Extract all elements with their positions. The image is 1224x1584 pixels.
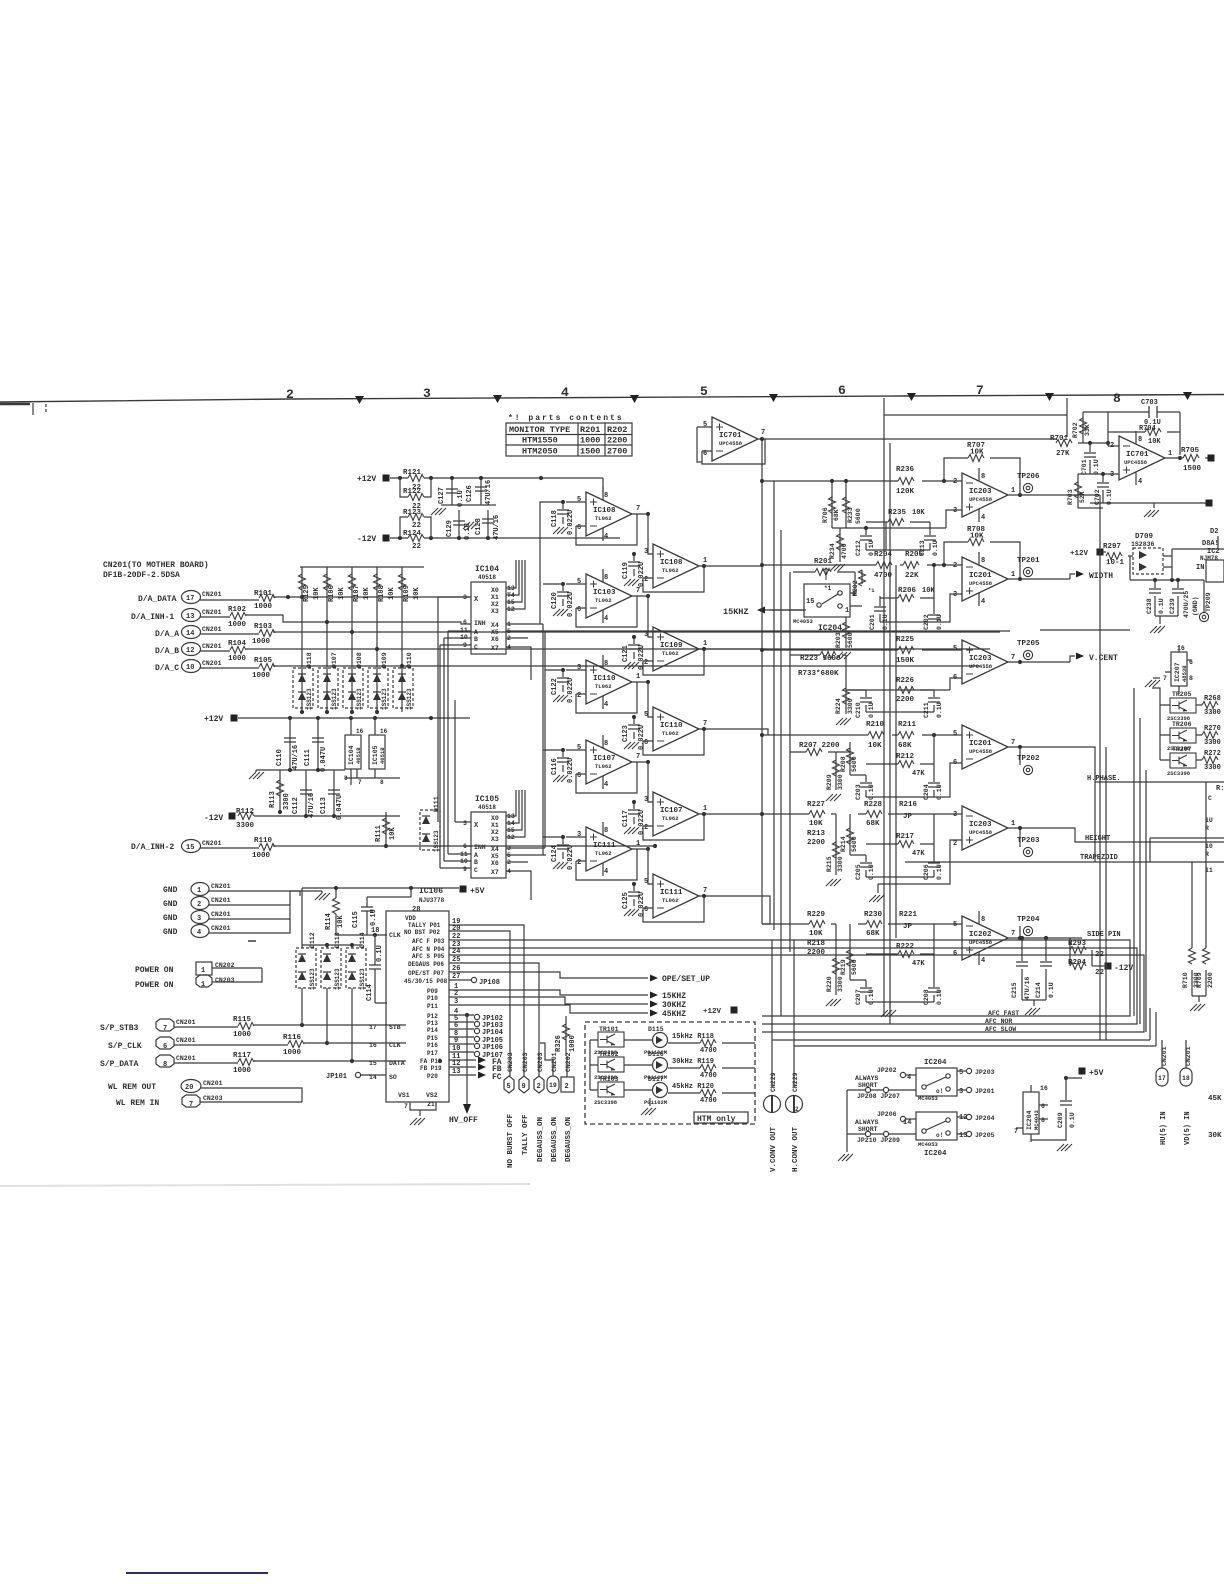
svg-text:7: 7	[1014, 1128, 1018, 1135]
svg-text:JP203: JP203	[975, 1069, 995, 1076]
svg-text:6: 6	[163, 1043, 167, 1051]
svg-text:2200: 2200	[607, 436, 627, 446]
svg-text:1SS123: 1SS123	[334, 968, 341, 990]
capacitor C127 0.1U	[451, 478, 453, 505]
svg-text:UPC4558: UPC4558	[1124, 459, 1148, 466]
resistor R113 3300	[279, 770, 281, 812]
diode D116 PG1102M	[644, 1051, 668, 1081]
node ruler tick triangle 1	[355, 396, 364, 404]
resistor R707 10K feedback	[944, 442, 1020, 495]
svg-text:0.1U: 0.1U	[936, 784, 943, 800]
capacitor C702 0.1U	[1094, 472, 1113, 505]
svg-text:2: 2	[953, 840, 957, 848]
svg-text:D8A!: D8A!	[1202, 540, 1219, 548]
resistor R710 3300	[1182, 936, 1200, 996]
svg-text:7: 7	[1011, 654, 1015, 662]
wire P02 to NO BURST hexagon	[449, 931, 510, 1076]
resistor R111 10K	[385, 812, 387, 846]
resistor R125 10K	[299, 567, 322, 712]
op-amp IC203 UPC4558	[953, 640, 1070, 684]
svg-text:+12V: +12V	[703, 1008, 722, 1016]
svg-text:C123: C123	[622, 725, 630, 742]
svg-text:7: 7	[404, 1103, 408, 1110]
svg-text:4051B: 4051B	[379, 747, 386, 764]
svg-text:MC4053: MC4053	[918, 1141, 939, 1148]
chip IC207 4853B	[1145, 645, 1193, 694]
svg-text:1: 1	[636, 673, 640, 681]
svg-text:R107: R107	[353, 585, 361, 602]
svg-text:5: 5	[953, 730, 957, 738]
svg-text:CN201: CN201	[203, 1080, 223, 1087]
svg-text:D110: D110	[406, 652, 413, 668]
svg-text:D/A_INH-1: D/A_INH-1	[131, 613, 174, 622]
svg-text:IC202: IC202	[969, 931, 992, 939]
capacitor C212 0.1U	[866, 528, 886, 550]
svg-text:IC201: IC201	[969, 740, 992, 748]
svg-text:TR207: TR207	[1172, 746, 1192, 753]
resistor R122	[400, 478, 431, 497]
svg-text:1000: 1000	[233, 1067, 252, 1075]
svg-text:CN201: CN201	[211, 883, 231, 890]
wire mid bus2	[256, 770, 400, 778]
svg-text:3300: 3300	[837, 976, 844, 992]
svg-text:47U/16: 47U/16	[493, 515, 501, 540]
transistor TR101 2SC3398	[594, 1026, 624, 1056]
resistor R123	[400, 517, 431, 538]
svg-text:X7: X7	[491, 645, 499, 652]
svg-text:R116: R116	[283, 1034, 302, 1042]
svg-text:C127: C127	[438, 487, 446, 504]
connector HU(5) IN 17 CN201	[1156, 1040, 1168, 1145]
svg-text:P17: P17	[427, 1050, 438, 1057]
svg-text:IC107: IC107	[660, 807, 683, 815]
svg-text:2: 2	[577, 692, 581, 700]
transistor TR206 2SC3398	[1160, 721, 1202, 752]
svg-text:GND: GND	[163, 928, 178, 937]
op-amp IC203 UPC4558	[953, 468, 1100, 522]
svg-text:10K: 10K	[363, 587, 371, 600]
svg-text:R109: R109	[403, 585, 411, 602]
svg-text:6: 6	[463, 619, 467, 626]
svg-text:S/P_DATA: S/P_DATA	[100, 1060, 139, 1069]
wire IC105 left pins	[440, 822, 471, 868]
svg-text:X3: X3	[491, 836, 499, 843]
junction dots on DA wires	[286, 595, 404, 714]
op-amp IC108 TL062 second stage	[643, 514, 760, 592]
resistor R216 JP	[899, 801, 918, 821]
svg-text:R202: R202	[852, 580, 859, 596]
svg-text:R227: R227	[807, 801, 825, 809]
capacitor C123 0.022U	[622, 715, 646, 750]
svg-text:V.CONV OUT: V.CONV OUT	[770, 1126, 778, 1172]
svg-text:13: 13	[186, 613, 194, 621]
svg-text:1000: 1000	[283, 1049, 302, 1057]
node ruler tick triangle 2	[493, 395, 502, 403]
svg-text:JP201: JP201	[975, 1088, 995, 1095]
svg-text:19: 19	[549, 1082, 557, 1089]
svg-text:8: 8	[1113, 391, 1121, 406]
svg-text:FA P18: FA P18	[420, 1058, 442, 1065]
svg-text:AFC F P03: AFC F P03	[412, 938, 445, 945]
wire P20 FC	[449, 1074, 476, 1076]
svg-text:HU(5) IN: HU(5) IN	[1160, 1111, 1168, 1145]
svg-text:1: 1	[201, 981, 205, 989]
svg-text:0.022U: 0.022U	[567, 678, 575, 703]
svg-text:o!: o!	[936, 1088, 943, 1095]
wire to R104	[200, 649, 990, 651]
resistor R208 5600	[849, 742, 851, 775]
svg-text:UPC4558: UPC4558	[969, 580, 993, 587]
resistor R107 10K	[349, 567, 372, 712]
svg-text:MC4053: MC4053	[793, 618, 814, 625]
wire +12V drop to D709	[1129, 556, 1131, 580]
svg-text:0.022U: 0.022U	[638, 562, 646, 587]
capacitor C205 0.1U	[850, 855, 866, 877]
resistor R708 10K feedback	[944, 526, 1020, 579]
svg-text:7: 7	[163, 1025, 167, 1033]
wire right edge drops	[1192, 782, 1206, 936]
svg-text:R224: R224	[835, 698, 842, 714]
ground under C128	[463, 522, 478, 529]
svg-text:R217: R217	[896, 833, 914, 841]
svg-text:C126: C126	[466, 485, 474, 502]
svg-text:3300: 3300	[1204, 764, 1221, 772]
svg-text:1: 1	[1011, 820, 1015, 828]
svg-text:C703: C703	[1141, 399, 1158, 407]
svg-text:4051B: 4051B	[355, 747, 362, 764]
svg-text:5600: 5600	[847, 632, 854, 648]
resistor R209 3300	[835, 752, 837, 790]
svg-text:AFC N P04: AFC N P04	[412, 946, 445, 953]
svg-text:o!: o!	[936, 1132, 943, 1139]
svg-text:TL062: TL062	[662, 730, 679, 737]
capacitor C213 0.1U	[886, 522, 930, 550]
svg-text:FB P19: FB P19	[420, 1065, 442, 1072]
svg-text:H.CONV OUT: H.CONV OUT	[792, 1126, 800, 1172]
svg-text:D117: D117	[648, 1076, 664, 1083]
svg-text:-12V: -12V	[357, 535, 376, 544]
svg-text:CN201: CN201	[551, 1052, 558, 1072]
svg-text:NJM78: NJM78	[1200, 555, 1218, 562]
wire P11 45KHZ	[449, 1005, 648, 1013]
svg-text:R225: R225	[896, 636, 915, 644]
svg-text:P12: P12	[427, 1013, 438, 1020]
svg-text:4853B: 4853B	[1181, 665, 1188, 682]
svg-text:22: 22	[412, 543, 422, 551]
transistor TR207 2SC3398	[1160, 746, 1202, 777]
node ruler tick triangle 6	[1045, 393, 1054, 401]
svg-text:1: 1	[1011, 487, 1015, 495]
svg-text:IC204: IC204	[818, 624, 842, 633]
svg-text:*1: *1	[824, 585, 832, 592]
svg-text:POWER ON: POWER ON	[135, 966, 174, 975]
svg-text:7: 7	[358, 779, 362, 786]
wire trapezoid	[905, 861, 1224, 863]
svg-text:R117: R117	[233, 1052, 251, 1060]
svg-text:0.1U: 0.1U	[1048, 982, 1055, 998]
svg-text:GND: GND	[163, 900, 178, 909]
svg-text:CN203: CN203	[215, 977, 235, 984]
svg-text:0.022U: 0.022U	[638, 892, 646, 917]
svg-text:5600: 5600	[851, 959, 858, 975]
op-amp IC111 TL062 second stage	[643, 849, 760, 922]
svg-text:15KHZ: 15KHZ	[662, 992, 686, 1001]
svg-text:4: 4	[604, 701, 608, 709]
transistor TR103 2SC3398	[594, 1076, 624, 1106]
svg-text:5: 5	[959, 1069, 963, 1077]
svg-text:TP206: TP206	[1017, 473, 1040, 481]
svg-text:7: 7	[703, 887, 707, 895]
svg-text:11: 11	[1205, 867, 1213, 874]
svg-text:7: 7	[189, 1101, 193, 1109]
svg-text:8: 8	[1041, 1117, 1045, 1124]
svg-text:X1: X1	[491, 594, 499, 601]
capacitor C126 47U/16	[480, 478, 482, 505]
node scan edge artifact	[0, 1184, 530, 1186]
svg-text:NO BST P02: NO BST P02	[404, 929, 440, 936]
svg-text:C239: C239	[1169, 598, 1176, 614]
svg-text:4700: 4700	[700, 1097, 717, 1105]
resistor R118 4700	[668, 1033, 755, 1055]
svg-text:IC110: IC110	[593, 675, 616, 683]
svg-text:R206: R206	[898, 587, 917, 595]
svg-text:5: 5	[700, 384, 708, 399]
svg-text:D/A_C: D/A_C	[155, 664, 179, 673]
svg-text:C116: C116	[551, 758, 559, 775]
resistor R293 22	[1068, 940, 1105, 959]
svg-text:IC110: IC110	[660, 722, 683, 730]
wire +5V feed	[302, 888, 459, 945]
svg-text:IC105: IC105	[372, 745, 379, 765]
svg-text:10K: 10K	[912, 509, 925, 517]
svg-text:JP208 JP207: JP208 JP207	[857, 1093, 900, 1100]
svg-text:IC201: IC201	[969, 572, 992, 580]
svg-text:47U/16: 47U/16	[485, 480, 493, 505]
svg-text:X3: X3	[491, 608, 499, 615]
svg-text:UPC4558: UPC4558	[969, 748, 993, 755]
svg-text:D115: D115	[648, 1026, 664, 1033]
svg-text:10-1: 10-1	[1106, 559, 1125, 567]
wire top section border	[884, 398, 1067, 437]
svg-text:2: 2	[286, 387, 294, 402]
svg-text:+5V: +5V	[1089, 1069, 1104, 1078]
svg-text:470U/25: 470U/25	[1183, 591, 1190, 618]
svg-text:9: 9	[522, 1083, 526, 1091]
wire feeder jogs from opamp outputs	[760, 566, 770, 924]
svg-text:8: 8	[163, 1061, 167, 1069]
svg-text:1SS123: 1SS123	[406, 688, 413, 710]
resistor R108 10K	[374, 567, 397, 712]
resistor R225 150K series	[762, 636, 962, 665]
svg-text:TALLY OFF: TALLY OFF	[522, 1114, 530, 1155]
svg-text:R229: R229	[807, 911, 826, 919]
svg-text:X6: X6	[491, 860, 499, 867]
svg-text:47U/16: 47U/16	[292, 745, 300, 770]
wire IC104 X0-X3 outputs	[506, 560, 525, 609]
svg-text:5: 5	[507, 1083, 511, 1091]
node stray mark	[248, 940, 256, 942]
wire P17 jp107	[449, 1051, 474, 1053]
wire P13 jp103	[449, 1021, 474, 1023]
svg-text:0.1U: 0.1U	[1158, 598, 1165, 614]
svg-text:1500: 1500	[1183, 465, 1202, 473]
svg-text:C: C	[1208, 795, 1212, 802]
svg-text:C117: C117	[622, 810, 630, 827]
wire +12V rail	[390, 478, 603, 492]
svg-text:C203: C203	[855, 784, 862, 800]
svg-text:S/P_STB3: S/P_STB3	[100, 1024, 139, 1033]
svg-text:4700: 4700	[700, 1072, 717, 1080]
svg-text:P09: P09	[427, 988, 438, 995]
svg-text:X7: X7	[491, 869, 499, 876]
svg-text:1000: 1000	[252, 852, 271, 860]
svg-text:TR205: TR205	[1172, 691, 1192, 698]
svg-text:2: 2	[565, 1083, 569, 1091]
node HV_OFF arrow	[463, 1104, 471, 1114]
svg-text:(GND): (GND)	[1192, 596, 1199, 616]
svg-text:30K: 30K	[1208, 1132, 1222, 1140]
svg-text:3: 3	[953, 507, 957, 515]
svg-text:10K: 10K	[313, 587, 321, 600]
svg-text:5600: 5600	[851, 836, 858, 852]
wire P09 15KHZ	[449, 990, 648, 995]
svg-text:IC111: IC111	[660, 889, 683, 897]
svg-text:IC701: IC701	[1126, 451, 1149, 459]
svg-text:3: 3	[953, 591, 957, 599]
svg-text:8: 8	[981, 473, 985, 481]
op-amp IC111 TL062	[566, 822, 650, 880]
svg-text:P20: P20	[427, 1073, 438, 1080]
resistor R702 33K	[1072, 412, 1108, 443]
svg-text:10K: 10K	[809, 820, 823, 828]
svg-text:JP108: JP108	[479, 979, 500, 987]
capacitor C114 0.1U	[375, 935, 387, 1003]
svg-text:R326: R326	[555, 1035, 563, 1052]
svg-text:5: 5	[577, 496, 581, 504]
resistor R205 22K series	[903, 551, 924, 580]
svg-text:CN201: CN201	[176, 1019, 196, 1026]
capacitor C116 0.022U	[551, 748, 575, 783]
svg-text:S/P_CLK: S/P_CLK	[108, 1042, 142, 1051]
svg-text:C: C	[474, 644, 478, 651]
svg-text:TP204: TP204	[1017, 916, 1040, 924]
wire P18 FA	[449, 1059, 476, 1061]
svg-text:X2: X2	[491, 829, 499, 836]
svg-text:4: 4	[604, 533, 608, 541]
svg-text:TP201: TP201	[1017, 557, 1040, 565]
svg-text:4: 4	[604, 615, 608, 623]
wire bottom bus row8	[1078, 503, 1206, 508]
svg-text:1: 1	[636, 840, 640, 848]
svg-text:AFC_SLOW: AFC_SLOW	[985, 1026, 1016, 1033]
node parts table frame	[506, 423, 632, 456]
svg-text:1: 1	[703, 805, 707, 813]
svg-text:CN201: CN201	[176, 1037, 196, 1044]
svg-text:TL062: TL062	[662, 897, 679, 904]
svg-text:X2: X2	[491, 601, 499, 608]
svg-text:R203: R203	[835, 632, 842, 648]
wire left tick 1	[32, 403, 34, 415]
svg-text:JP: JP	[903, 813, 913, 821]
svg-text:CLK: CLK	[389, 932, 401, 939]
svg-text:POWER ON: POWER ON	[135, 981, 174, 990]
svg-text:3: 3	[577, 664, 581, 672]
svg-text:3300: 3300	[837, 856, 844, 872]
svg-text:JP106: JP106	[482, 1044, 503, 1052]
resistor R119 4700	[668, 1058, 755, 1080]
svg-text:R: R	[1205, 825, 1209, 832]
svg-text:8: 8	[981, 557, 985, 565]
connector oval DEGAUSS_ON 19 CN201	[540, 1043, 559, 1162]
svg-text:HTM2050: HTM2050	[522, 447, 558, 457]
svg-text:X5: X5	[491, 853, 499, 860]
resistor R230 68K series	[864, 911, 883, 938]
svg-text:0.1U: 0.1U	[1093, 459, 1100, 475]
svg-text:IC204: IC204	[924, 1150, 947, 1158]
svg-text:IC109: IC109	[660, 642, 683, 650]
svg-text:16: 16	[356, 728, 364, 735]
capacitor C211 0.1U	[866, 690, 934, 712]
svg-text:OPE/ST P07: OPE/ST P07	[408, 970, 444, 977]
resistor R201 pot	[793, 558, 855, 592]
svg-text:R111: R111	[375, 825, 383, 842]
svg-text:*1: *1	[868, 587, 875, 594]
svg-text:1: 1	[1168, 450, 1172, 458]
svg-text:5: 5	[953, 921, 957, 929]
svg-text:R201: R201	[814, 558, 833, 566]
capacitor C239 470U/25	[1169, 580, 1199, 618]
svg-text:7: 7	[1011, 930, 1015, 938]
svg-text:0.022U: 0.022U	[638, 725, 646, 750]
svg-text:10K: 10K	[413, 587, 421, 600]
wire A/B/C bus IC104 to IC105	[438, 597, 455, 868]
capacitor C111 0.047U	[317, 718, 319, 770]
svg-text:X6: X6	[491, 636, 499, 643]
svg-text:TALLY P01: TALLY P01	[408, 922, 441, 929]
svg-text:INH: INH	[474, 620, 486, 627]
svg-text:1000: 1000	[252, 638, 271, 646]
wire TR feeder	[1152, 688, 1160, 760]
svg-text:+12V: +12V	[357, 475, 376, 484]
svg-text:C205: C205	[855, 864, 862, 880]
svg-text:16: 16	[1040, 1085, 1048, 1092]
svg-text:IC105: IC105	[475, 795, 499, 804]
capacitor C125 0.022U	[622, 882, 646, 917]
svg-text:B: B	[474, 859, 478, 866]
resistor R228 68K series	[864, 801, 883, 828]
svg-text:7: 7	[703, 720, 707, 728]
svg-text:0.1U: 0.1U	[932, 540, 939, 556]
svg-text:UPC4558: UPC4558	[969, 829, 993, 836]
svg-text:1000: 1000	[252, 672, 271, 680]
resistor R220 3300	[835, 924, 837, 995]
svg-text:0.1U: 0.1U	[1069, 1112, 1076, 1128]
svg-text:IC106: IC106	[419, 887, 443, 896]
svg-text:14: 14	[903, 1119, 911, 1127]
svg-text:IC108: IC108	[660, 559, 683, 567]
switch IC204 MC4053 lower	[838, 1090, 995, 1161]
wire P12 jp102 + HV_OFF stem	[449, 1015, 474, 1104]
svg-text:+12V: +12V	[1070, 550, 1089, 558]
svg-text:D113: D113	[334, 932, 341, 948]
svg-text:3: 3	[959, 1088, 963, 1096]
wire top border line	[0, 395, 1224, 403]
svg-text:R221: R221	[899, 911, 918, 919]
svg-text:1SS123: 1SS123	[309, 968, 316, 990]
svg-text:P16: P16	[427, 1042, 438, 1049]
svg-text:150K: 150K	[896, 657, 915, 665]
svg-text:TRAPEZOID: TRAPEZOID	[1080, 854, 1118, 862]
